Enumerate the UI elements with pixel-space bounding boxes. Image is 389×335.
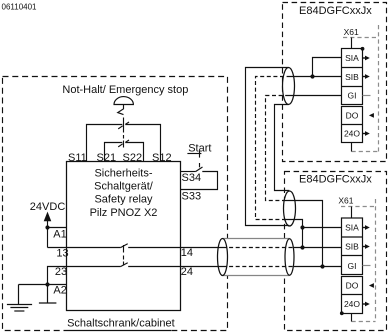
wire J2 to bottom drive SIA — [303, 227, 342, 229]
node J2 junction dot — [300, 225, 304, 229]
cable 2 lower end cap ellipse (at bottom drive) — [284, 191, 296, 226]
svg-text:24O: 24O — [344, 129, 360, 139]
svg-text:13: 13 — [56, 248, 68, 260]
svg-text:Schaltgerät/: Schaltgerät/ — [94, 181, 154, 193]
X61 stub top drive lower — [351, 143, 353, 152]
relay enclosure box PNOZ X2 — [67, 162, 181, 311]
svg-text:S22: S22 — [123, 152, 143, 164]
wire start contact to S33 loop — [181, 172, 218, 190]
svg-text:14: 14 — [181, 247, 193, 259]
wire J2 down to J1 — [302, 228, 304, 248]
start button actuator bar — [187, 153, 201, 155]
node A2 junction dot — [45, 282, 49, 286]
start button actuator stem — [199, 151, 201, 158]
drive enclosure E84 top dashed box — [283, 3, 387, 162]
signal arrow DO bottom drive (points left) — [369, 283, 374, 288]
e-stop actuator dashed linkage line — [123, 118, 125, 148]
signal arrow 24O bottom drive — [363, 302, 370, 307]
signal arrow SIB top drive — [363, 74, 370, 79]
svg-text:E84DGFCxxJx: E84DGFCxxJx — [299, 5, 372, 17]
start actuator dashed link — [199, 163, 201, 167]
X61 stub top drive upper — [351, 38, 353, 49]
svg-text:Not-Halt/ Emergency stop: Not-Halt/ Emergency stop — [62, 84, 188, 96]
cable 1 core from 14 dashed inside cable — [223, 247, 295, 249]
cable 2 core c dashed run (to top drive GI) — [266, 96, 288, 201]
rung 13-14 wire right part to cable — [128, 247, 222, 249]
cabinet label underline solid segment — [64, 329, 171, 332]
wire 24 core to bottom drive GI — [294, 266, 342, 268]
earth ground symbol — [7, 285, 32, 312]
cabinet dashed enclosure Schaltschrank — [3, 77, 228, 331]
wire to terminal 13 — [48, 247, 67, 249]
node A1 junction dot — [45, 225, 49, 229]
GI stub line top drive — [363, 95, 371, 97]
relay contact 23-24 blade — [121, 263, 128, 267]
e-stop actuator stem with break zigzag — [118, 105, 124, 115]
24VDC supply arrow — [44, 212, 52, 222]
emergency stop mushroom head S1 — [114, 97, 133, 105]
signal arrow DO top drive (points left) — [369, 113, 374, 118]
signal arrow SIB bottom drive — [363, 244, 370, 249]
signal arrow SIA bottom drive — [363, 225, 370, 230]
cable 1 right end cap ellipse — [285, 239, 294, 275]
e-stop contact 2 blade marks — [125, 140, 129, 142]
shielded cable 1 body (cabinet to bottom drive) — [223, 239, 290, 276]
wire core c exit to top drive GI — [287, 95, 342, 97]
X61 stub bottom drive upper — [351, 207, 353, 219]
start contact blade — [196, 167, 203, 172]
svg-text:SIB: SIB — [345, 242, 359, 252]
wire S21 loop to contact 2 — [105, 143, 123, 162]
svg-text:GI: GI — [348, 91, 357, 101]
X61 gray dashed sub-border top drive — [343, 25, 379, 152]
node J3 junction dot — [320, 264, 324, 268]
e-stop contact 1 blade marks — [125, 122, 129, 124]
supply drop wire to A1 and 13 — [47, 221, 49, 248]
wire contact 1 to S12 — [125, 125, 160, 162]
signal arrow SIA top drive — [363, 56, 370, 61]
X61 stub bottom drive lower — [351, 314, 353, 322]
svg-text:A2: A2 — [53, 284, 66, 296]
node J4 junction dot — [310, 74, 314, 78]
svg-text:S21: S21 — [97, 152, 117, 164]
svg-text:E84DGFCxxJx: E84DGFCxxJx — [299, 173, 372, 185]
svg-text:S33: S33 — [182, 190, 202, 202]
svg-text:24VDC: 24VDC — [30, 201, 66, 213]
cable 2 core b dashed run (to top drive SIA/SIB) — [256, 77, 288, 220]
svg-text:SIA: SIA — [345, 53, 359, 63]
wire contact 2 to S22 — [125, 143, 143, 162]
svg-text:24O: 24O — [344, 299, 360, 309]
pin labels top drive — [344, 53, 360, 139]
svg-text:24: 24 — [181, 266, 193, 278]
wire ground to terminal A2 — [19, 284, 67, 286]
node J1 junction dot — [300, 245, 304, 249]
wire to terminal A1 — [48, 227, 67, 229]
svg-text:S12: S12 — [152, 152, 172, 164]
wire 14 core to bottom drive SIB — [294, 247, 342, 249]
svg-text:Safety relay: Safety relay — [94, 194, 153, 206]
svg-text:A1: A1 — [53, 228, 66, 240]
wire S11 loop to contact 1 — [87, 125, 123, 162]
svg-text:S11: S11 — [68, 152, 87, 164]
relay output rung 23-24 wire left part — [67, 266, 121, 268]
signal arrow 24O top drive — [363, 131, 370, 136]
cable 2 screen conductor inner — [275, 105, 290, 191]
wire J4 branch to top drive SIA — [313, 58, 342, 77]
pin labels bottom drive — [344, 223, 360, 310]
connector X61 bottom drive group SIA/SIB/GI — [342, 218, 363, 275]
cable 1 core from 24 dashed inside cable — [223, 266, 295, 268]
connector X61 top drive group SIA/SIB/GI — [342, 49, 363, 105]
connector X61 top drive group DO/24O — [342, 107, 363, 143]
svg-text:Pilz PNOZ X2: Pilz PNOZ X2 — [90, 207, 158, 219]
svg-text:DO: DO — [346, 281, 359, 291]
X61 gray dashed sub-border bottom drive — [341, 199, 376, 322]
svg-text:Sicherheits-: Sicherheits- — [94, 168, 152, 180]
wire S34 to start contact — [181, 171, 196, 173]
cable 2 screen conductor outer (left loop) — [246, 68, 290, 226]
drive enclosure E84 bottom dashed box — [285, 172, 387, 331]
terminal labels S11 S21 S22 S12 — [68, 152, 172, 164]
svg-text:Schaltschrank/cabinet: Schaltschrank/cabinet — [67, 318, 175, 330]
svg-text:SIB: SIB — [345, 72, 359, 82]
connector X61 bottom drive group DO/24O — [342, 277, 363, 314]
relay label text — [90, 168, 158, 219]
cable 1 left end cap ellipse — [218, 239, 228, 276]
wire bottom SIA branch from cable 2 — [286, 220, 303, 228]
svg-text:23: 23 — [55, 266, 67, 278]
svg-text:DO: DO — [346, 111, 359, 121]
relay contact 13-14 blade — [121, 244, 128, 248]
svg-text:SIA: SIA — [345, 223, 359, 233]
wire terminal 23 to A2 node — [48, 267, 67, 285]
svg-text:X61: X61 — [344, 27, 359, 37]
cable 2 upper end cap ellipse (at top drive) — [283, 68, 295, 105]
svg-text:GI: GI — [348, 261, 357, 271]
node dot SIA corner top drive — [361, 47, 365, 51]
svg-text:06110401: 06110401 — [2, 2, 38, 11]
relay output rung 13-14 wire left part — [67, 247, 121, 249]
wire core c to GI junction J3 — [286, 201, 323, 267]
chassis ground bar at A2 — [39, 285, 57, 304]
rung 23-24 wire right part to cable — [128, 266, 222, 268]
relay contacts dashed linkage — [123, 245, 125, 266]
node dot 24O corner bottom drive — [340, 311, 344, 315]
GI stub line bottom drive — [363, 265, 371, 267]
wire core b exit to top drive SIB — [287, 76, 342, 78]
svg-text:X61: X61 — [338, 196, 353, 206]
svg-text:S34: S34 — [182, 172, 202, 184]
